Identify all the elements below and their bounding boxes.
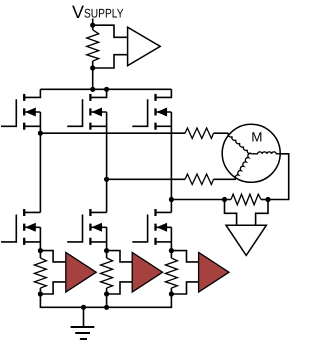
wire amp U1 bottom input — [93, 55, 128, 68]
transistor Q4 arrow — [25, 223, 36, 232]
node sense left — [222, 197, 227, 202]
node supply top — [90, 23, 95, 28]
wire supply rail — [40, 88, 171, 90]
node bus R2 — [104, 305, 109, 310]
transistor Q1 source — [24, 125, 40, 127]
svg-text:SUPPLY: SUPPLY — [84, 7, 124, 21]
transistor Q3 arrow — [157, 108, 168, 117]
node phase C — [169, 197, 174, 202]
transistor Q1 channel dashes — [23, 94, 25, 130]
wire ground bus — [40, 294, 171, 307]
node sense right — [265, 197, 270, 202]
wire sense right — [261, 199, 268, 201]
wire amp A2 top input — [107, 251, 133, 262]
node R1 bottom — [38, 291, 43, 296]
transistor Q1 drain — [24, 89, 40, 97]
resistor R1 (phase A sense) — [39, 251, 41, 258]
resistor phase C sense — [231, 194, 261, 205]
amp A1 (gate driver, red) — [66, 252, 96, 292]
node rail supply — [90, 87, 95, 92]
transistor Q3 body line — [156, 112, 171, 200]
transistor Q5 drain — [90, 179, 106, 212]
node Q5 source — [104, 248, 109, 253]
transistor Q2 gate — [67, 99, 82, 126]
wire resistor bottom to rail — [92, 61, 94, 89]
motor M circle — [222, 124, 280, 182]
transistor Q6 source — [156, 241, 172, 243]
wire phase C from motor — [268, 154, 289, 200]
transistor Q4 body line — [25, 227, 40, 250]
wire VSUPPLY stem — [92, 19, 94, 30]
node Q4 source — [38, 248, 43, 253]
resistor phase A — [185, 128, 214, 138]
op-amp U2 (phase C current sense) — [226, 225, 266, 255]
transistor Q3 source — [156, 125, 172, 127]
transistor Q5 arrow — [91, 223, 102, 232]
winding A — [228, 133, 251, 153]
transistor Q6 channel dashes — [154, 209, 156, 245]
wire amp A2 bottom input — [107, 282, 133, 294]
wire phase C left — [171, 199, 231, 201]
node supply bottom — [90, 65, 95, 70]
wire amp U1 top input — [93, 25, 128, 37]
transistor Q6 body line — [156, 227, 171, 250]
transistor Q3 drain — [156, 89, 172, 97]
winding B — [235, 153, 251, 179]
transistor Q2 body line — [91, 112, 106, 179]
transistor Q2 drain — [90, 89, 106, 97]
ground — [83, 307, 85, 327]
resistor phase B — [185, 174, 214, 184]
svg-text:M: M — [251, 129, 262, 144]
transistor Q1 gate — [1, 99, 16, 126]
transistor Q1 arrow — [25, 108, 36, 117]
wire phase A right — [214, 132, 229, 134]
transistor Q5 source — [90, 241, 106, 243]
transistor Q5 body line — [91, 227, 106, 250]
transistor Q4 drain — [24, 133, 40, 212]
node rail Q2 drain — [104, 87, 109, 92]
resistor RSENSE supply (vertical) — [87, 30, 99, 61]
wire phase A left — [40, 132, 185, 134]
wire phase B right — [214, 178, 237, 180]
label V_SUPPLY — [72, 2, 124, 22]
wire amp A3 bottom input — [171, 282, 198, 294]
transistor Q5 gate — [67, 215, 82, 242]
op-amp U1 (supply current sense) — [128, 27, 161, 65]
resistor R3 (phase C sense) — [170, 251, 172, 258]
amp A2 (gate driver, red) — [132, 252, 162, 292]
node phase A — [38, 131, 43, 136]
winding C — [251, 152, 280, 154]
transistor Q4 source — [24, 241, 40, 243]
transistor Q5 channel dashes — [89, 209, 91, 245]
svg-text:V: V — [72, 2, 84, 22]
resistor R2 (phase B sense) — [106, 251, 108, 258]
wire comparator U2 left input — [225, 200, 237, 226]
transistor Q4 channel dashes — [23, 209, 25, 245]
wire phase B left — [107, 178, 185, 180]
node bus ground — [81, 305, 86, 310]
node phase B — [104, 177, 109, 182]
transistor Q6 gate — [132, 215, 147, 242]
transistor Q2 arrow — [91, 108, 102, 117]
node Q6 source — [169, 248, 174, 253]
wire amp A1 top input — [40, 251, 65, 262]
transistor Q4 gate — [1, 215, 16, 242]
transistor Q3 gate — [132, 99, 147, 126]
transistor Q2 source — [90, 125, 106, 127]
wire amp A3 top input — [171, 251, 198, 262]
node R3 bottom — [169, 291, 174, 296]
transistor Q2 channel dashes — [89, 94, 91, 130]
wire comparator U2 right input — [256, 200, 268, 226]
wire amp A1 bottom input — [40, 282, 65, 294]
transistor Q1 body line — [25, 112, 40, 133]
amp A3 (gate driver, red) — [199, 252, 229, 292]
transistor Q3 channel dashes — [154, 94, 156, 130]
transistor Q6 arrow — [157, 223, 168, 232]
node R2 bottom — [104, 291, 109, 296]
transistor Q6 drain — [156, 200, 172, 213]
